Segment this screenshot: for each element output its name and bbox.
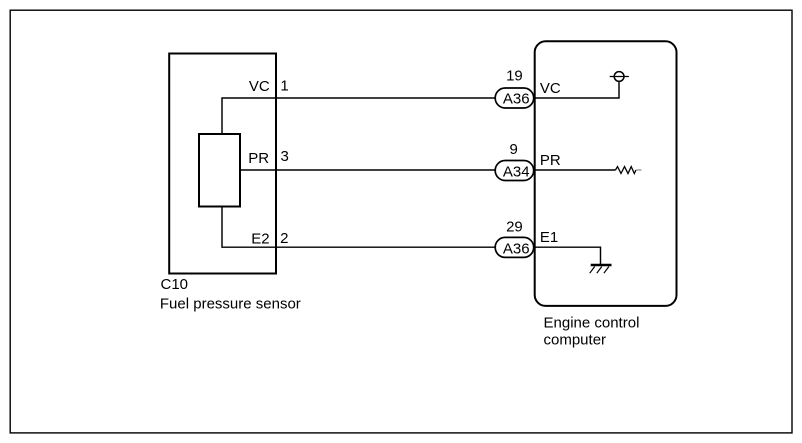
svg-text:9: 9 xyxy=(510,141,518,158)
svg-text:VC: VC xyxy=(540,80,561,97)
svg-text:E2: E2 xyxy=(251,230,269,247)
svg-text:E1: E1 xyxy=(540,229,558,246)
svg-text:Engine control: Engine control xyxy=(544,315,640,332)
svg-text:C10: C10 xyxy=(161,276,189,293)
svg-text:PR: PR xyxy=(248,150,269,167)
svg-text:A34: A34 xyxy=(503,164,530,181)
svg-text:computer: computer xyxy=(544,332,607,349)
svg-text:3: 3 xyxy=(281,148,289,165)
svg-text:A36: A36 xyxy=(503,240,530,257)
svg-text:Fuel pressure sensor: Fuel pressure sensor xyxy=(160,296,301,313)
svg-text:PR: PR xyxy=(540,152,561,169)
svg-text:1: 1 xyxy=(280,77,288,94)
svg-text:19: 19 xyxy=(506,68,523,85)
svg-text:29: 29 xyxy=(506,218,523,235)
svg-text:A36: A36 xyxy=(503,90,530,107)
svg-text:2: 2 xyxy=(280,230,288,247)
svg-text:VC: VC xyxy=(249,78,270,95)
